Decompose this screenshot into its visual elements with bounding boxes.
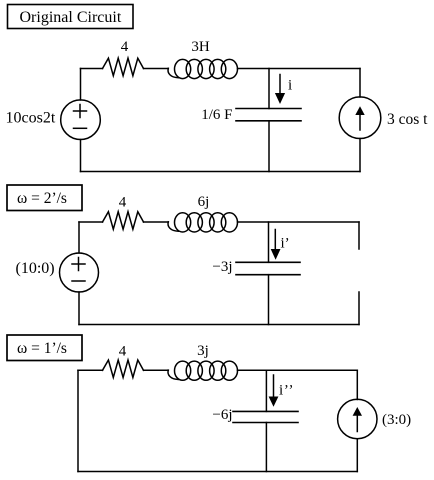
svg-text:(3:0): (3:0): [382, 412, 411, 428]
voltage source V1 10cos2t (circuit 1): [61, 100, 101, 140]
wire: C1 middle branch upper: [268, 69, 270, 109]
wire: C2 right rail top stub (open circuit): [358, 222, 360, 249]
wire: C1 middle branch lower: [268, 121, 270, 172]
resistor 4 ohm (circuit 1): [103, 58, 144, 75]
svg-text:4: 4: [121, 39, 129, 55]
svg-text:3j: 3j: [197, 343, 209, 359]
current arrow i' (circuit 2): [271, 230, 281, 260]
current source I1 3cost (circuit 1): [339, 97, 381, 139]
wire: C2 top wire right segment: [238, 221, 360, 223]
wire: C3 middle branch lower: [265, 423, 267, 472]
label box omega = 2'/s: [7, 185, 82, 211]
svg-text:−6j: −6j: [212, 407, 232, 423]
svg-text:ω = 2’/s: ω = 2’/s: [17, 190, 67, 207]
wire: C3 bottom wire: [78, 471, 357, 473]
wire: C1 top wire right segment: [238, 68, 361, 70]
wire: C3 top wire right segment: [238, 369, 358, 371]
svg-text:3H: 3H: [191, 39, 210, 55]
wire: C2 left rail lower: [78, 292, 80, 325]
wire: C3 middle branch upper: [265, 370, 267, 411]
wire: C2 bottom wire: [79, 324, 359, 326]
title box Original Circuit: [8, 5, 134, 29]
svg-text:4: 4: [119, 344, 127, 360]
capacitor 1/6 F (circuit 1): [236, 109, 301, 121]
label box omega = 1'/s: [7, 335, 82, 361]
inductor 3j (circuit 3): [168, 361, 237, 380]
svg-text:4: 4: [119, 195, 127, 211]
svg-text:6j: 6j: [198, 194, 210, 210]
current arrow i (circuit 1): [275, 75, 285, 105]
wire: C1 top wire left segment: [81, 68, 103, 70]
svg-text:Original Circuit: Original Circuit: [20, 9, 122, 26]
wire: C2 middle branch upper: [268, 222, 270, 262]
inductor 6j (circuit 2): [168, 213, 237, 232]
resistor 4 ohm (circuit 2): [103, 212, 144, 230]
voltage source V2 (10:0) phasor (circuit 2): [60, 253, 99, 292]
svg-text:i’: i’: [281, 236, 290, 252]
capacitor -6j (circuit 3): [233, 411, 298, 422]
current source I3 (3:0) phasor (circuit 3): [338, 399, 377, 438]
svg-text:i’’: i’’: [279, 383, 294, 399]
wire: C1 right rail upper: [359, 69, 361, 98]
wire: C1 right rail lower: [359, 139, 361, 172]
wire: C3 right rail lower: [356, 439, 358, 472]
svg-text:(10:0): (10:0): [16, 260, 55, 277]
svg-text:1/6 F: 1/6 F: [201, 107, 232, 123]
wire: C2 top wire left segment: [79, 221, 103, 223]
inductor 3H (circuit 1): [168, 59, 237, 78]
resistor 4 ohm (circuit 3): [103, 360, 144, 378]
wire: C1 resistor to inductor: [144, 68, 169, 70]
wire: C3 right rail upper: [356, 370, 358, 399]
wire: C2 middle branch lower: [268, 275, 270, 325]
svg-text:i: i: [288, 78, 292, 94]
svg-text:ω = 1’/s: ω = 1’/s: [17, 340, 67, 357]
svg-text:3 cos t: 3 cos t: [387, 111, 428, 128]
wire: C1 left rail upper: [80, 69, 82, 101]
wire: C1 left rail lower: [80, 140, 82, 172]
wire: C1 bottom wire: [81, 171, 361, 173]
current arrow i'' (circuit 3): [269, 375, 279, 407]
wire: C3 left rail: [77, 370, 79, 471]
capacitor -3j (circuit 2): [236, 262, 300, 274]
svg-text:−3j: −3j: [212, 259, 232, 275]
wire: C2 right rail bottom stub (open circuit): [358, 292, 360, 325]
wire: C3 top wire left segment: [78, 369, 103, 371]
svg-text:10cos2t: 10cos2t: [6, 110, 56, 127]
wire: C3 resistor to inductor: [144, 369, 169, 371]
wire: C2 left rail upper: [78, 222, 80, 253]
wire: C2 resistor to inductor: [144, 221, 169, 223]
